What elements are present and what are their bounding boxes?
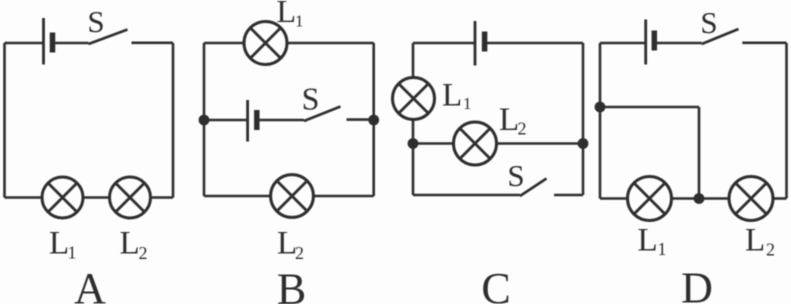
node dot bottom (circuit D) — [694, 193, 705, 204]
wire: A bottom-left segment — [5, 196, 43, 199]
switch S blade (circuit B) — [304, 107, 341, 122]
wire: A switch to top-right corner — [132, 41, 174, 44]
wire: C left side upper — [412, 43, 415, 78]
wire: C branch left segment — [413, 142, 454, 145]
svg-text:2: 2 — [295, 243, 304, 263]
wire: C branch right segment — [497, 142, 584, 145]
svg-text:L: L — [499, 102, 519, 138]
lamp L2 (circuit B) — [271, 175, 314, 218]
svg-text:B: B — [277, 265, 306, 304]
svg-text:1: 1 — [463, 94, 472, 113]
svg-text:L: L — [120, 225, 140, 261]
svg-text:1: 1 — [295, 11, 304, 30]
wire: D top-left segment — [600, 42, 646, 45]
svg-text:L: L — [745, 222, 765, 258]
wire: B bottom-right segment — [313, 195, 373, 198]
lamp L1 (circuit A) — [42, 177, 83, 218]
wire: B left side — [203, 43, 206, 196]
node dot left (circuit D) — [595, 102, 606, 113]
svg-text:L: L — [49, 225, 69, 261]
svg-text:L: L — [277, 0, 297, 29]
svg-text:S: S — [507, 158, 524, 193]
svg-text:2: 2 — [518, 119, 527, 139]
wire: C top-left segment — [413, 42, 475, 45]
wire: D bottom-right segment — [773, 197, 787, 200]
wire: C bottom-right segment — [554, 194, 583, 197]
wire: C bottom-left segment — [413, 194, 520, 197]
lamp L2 (circuit C) — [454, 122, 497, 165]
wire: B switch to right node — [347, 118, 374, 121]
node dot left (circuit C) — [408, 138, 419, 149]
svg-text:S: S — [700, 5, 717, 40]
lamp L1 (circuit B) — [244, 22, 287, 65]
wire: D between lamps — [672, 197, 730, 200]
battery B4 (circuit D) long plate — [644, 20, 647, 65]
wire: D right side — [785, 43, 788, 199]
wire: D branch horizontal — [600, 106, 699, 109]
battery B1 (circuit A) short plate — [50, 33, 56, 53]
lamp L1 (circuit D) — [628, 177, 672, 221]
wire: D left side — [599, 43, 602, 199]
wire: A left side — [3, 43, 6, 198]
wire: D battery to switch — [654, 42, 701, 45]
svg-text:C: C — [481, 264, 510, 304]
switch S blade (circuit C) — [520, 179, 547, 197]
svg-text:2: 2 — [766, 239, 775, 259]
svg-text:1: 1 — [658, 239, 667, 259]
wire: B right side — [372, 43, 375, 196]
wire: C right side — [582, 43, 585, 195]
wire: B branch left to battery — [204, 119, 248, 122]
svg-text:L: L — [638, 222, 658, 258]
wire: C left side lower — [412, 120, 415, 196]
svg-text:1: 1 — [68, 242, 77, 262]
wire: B top-right segment — [287, 42, 374, 45]
lamp L1 (circuit C) — [393, 78, 435, 120]
wire: A battery to switch — [53, 42, 89, 45]
svg-text:D: D — [681, 264, 713, 304]
lamp L2 (circuit D) — [729, 177, 773, 221]
svg-text:S: S — [87, 4, 104, 39]
wire: B top-left segment — [204, 42, 244, 45]
battery B2 (circuit B) short plate — [254, 110, 260, 130]
battery B3 (circuit C) short plate — [482, 32, 488, 52]
node dot right (circuit B) — [368, 115, 379, 126]
svg-text:A: A — [74, 264, 106, 304]
wire: A between lamps — [83, 196, 110, 199]
lamp L2 (circuit A) — [110, 177, 151, 218]
switch S blade (circuit D) — [702, 29, 739, 44]
svg-text:2: 2 — [139, 243, 148, 263]
battery B2 (circuit B) long plate — [246, 100, 249, 142]
wire: A right side — [172, 43, 175, 198]
node dot right (circuit C) — [578, 138, 589, 149]
battery B3 (circuit C) long plate — [474, 21, 477, 66]
node dot left (circuit B) — [199, 115, 210, 126]
battery B4 (circuit D) short plate — [652, 31, 658, 51]
wire: C top-right segment — [485, 42, 583, 45]
wire: D bottom-left segment — [600, 197, 628, 200]
svg-text:L: L — [442, 77, 462, 113]
switch S blade (circuit A) — [89, 30, 128, 45]
wire: B battery to switch — [257, 119, 304, 122]
wire: A top-left segment — [5, 42, 44, 45]
svg-text:S: S — [302, 81, 320, 117]
wire: A bottom-right segment — [151, 196, 174, 199]
wire: B bottom-left segment — [204, 195, 271, 198]
wire: D branch vertical — [698, 107, 701, 199]
wire: D switch to top-right corner — [742, 41, 786, 44]
battery B1 (circuit A) long plate — [42, 18, 45, 65]
